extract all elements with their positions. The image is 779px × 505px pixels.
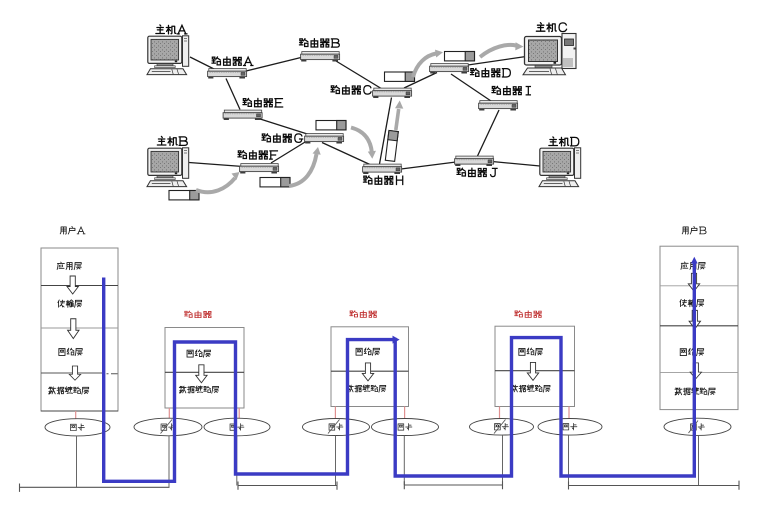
slash e4 xyxy=(328,420,340,434)
label 路由器 red 2 xyxy=(350,311,377,318)
label 应用层 userA xyxy=(57,262,81,270)
packet at host B xyxy=(169,191,199,200)
wire hostA-routerA xyxy=(190,57,216,70)
label 数据链路层 router1 xyxy=(179,386,218,393)
label 传输层 userA xyxy=(58,300,82,308)
drop e5 xyxy=(403,436,405,486)
label 路由器C xyxy=(331,86,371,95)
label 主机D xyxy=(549,137,579,146)
router H xyxy=(363,164,402,174)
drop e4 xyxy=(335,436,337,486)
label 传输层 userB xyxy=(680,299,704,307)
router J xyxy=(455,156,494,166)
label 路由器 red 3 xyxy=(515,311,542,318)
host C computer xyxy=(523,34,576,75)
arrow userB L2-L3 xyxy=(689,310,700,329)
router C xyxy=(373,88,412,98)
LAN bus 1 xyxy=(20,484,170,492)
arrow routerC to packet xyxy=(413,54,436,78)
LAN bus 3 xyxy=(404,481,502,489)
packet above router G xyxy=(316,121,346,130)
wire routerA-routerE xyxy=(226,79,240,110)
router stack 3 box xyxy=(495,326,575,406)
arrow userA L1-L2 xyxy=(67,276,78,294)
arrowhead G xyxy=(313,147,321,155)
label 网卡 e7 xyxy=(563,423,577,430)
NIC ellipse userA xyxy=(45,419,110,436)
label 网络层 router1 xyxy=(187,350,210,357)
arrow userB L1-L2 xyxy=(688,273,699,291)
label 路由器F xyxy=(238,151,278,160)
drop e8 xyxy=(698,435,700,485)
label 路由器B xyxy=(299,39,339,48)
wire routerG-routerH xyxy=(322,143,371,166)
NIC ellipse router3 right xyxy=(538,419,602,436)
blue data path xyxy=(104,262,695,481)
wire routerD-hostC xyxy=(461,57,526,67)
label 网卡 e6 xyxy=(495,423,509,430)
label 路由器G xyxy=(262,134,303,143)
label 应用层 userB xyxy=(681,262,705,270)
label 网络层 router3 xyxy=(519,348,542,355)
label 网卡 e8 xyxy=(691,424,705,431)
slash e6 xyxy=(494,420,506,434)
NIC ellipse userB xyxy=(664,418,731,435)
router I xyxy=(479,101,518,111)
wire routerI-routerJ xyxy=(478,110,500,156)
arrow router3 xyxy=(527,362,538,380)
label 网卡 e1 xyxy=(71,424,85,431)
blue arrow tip userB xyxy=(691,257,698,264)
router B xyxy=(301,52,340,62)
label 网络层 router2 xyxy=(356,348,379,355)
router G xyxy=(305,134,344,144)
LAN bus 2 xyxy=(238,482,337,490)
drop e1 xyxy=(76,436,78,487)
slash e8 xyxy=(689,421,699,434)
drop e2 xyxy=(168,436,170,488)
label 网卡 e5 xyxy=(398,424,412,431)
wire routerH-routerJ xyxy=(401,162,456,169)
red drop router2 left xyxy=(334,407,336,421)
red drop router1 left xyxy=(168,408,170,421)
wire routerE-routerG xyxy=(257,118,312,136)
arrowhead hostC xyxy=(515,42,523,50)
router stack 1 box xyxy=(165,328,244,409)
router E xyxy=(223,110,262,120)
label 路由器I xyxy=(492,86,530,95)
arrow routerG to routerH xyxy=(351,128,372,153)
blue arrow tip router2 xyxy=(393,336,400,344)
slash e2 xyxy=(161,420,173,434)
host A computer xyxy=(147,36,189,75)
wire routerF-routerG xyxy=(271,139,310,163)
arrowhead C xyxy=(395,101,403,109)
wire routerC-routerD xyxy=(404,73,437,89)
arrow routerF to routerG xyxy=(289,154,317,186)
arrowhead F xyxy=(232,172,240,180)
router stack 2 box xyxy=(331,327,409,407)
arrow router1 xyxy=(196,365,207,383)
label 网卡 e2 xyxy=(161,424,175,431)
host B computer xyxy=(147,148,189,187)
label 主机A xyxy=(156,25,187,34)
red drop router2 right xyxy=(404,407,406,421)
wire routerA-routerB xyxy=(244,57,303,72)
wire routerB-routerC xyxy=(336,61,382,89)
LAN bus 4 xyxy=(569,481,740,490)
arrow userA L2-L3 xyxy=(68,319,79,339)
host D computer xyxy=(539,148,581,187)
label 主机C xyxy=(536,23,566,32)
packet above router C xyxy=(385,72,415,81)
label 路由器 red 1 xyxy=(184,311,211,318)
drop e7 xyxy=(568,435,570,485)
arrow userA L3-L4 xyxy=(69,366,80,380)
arrowhead H xyxy=(368,151,376,159)
router D xyxy=(430,64,469,74)
packet tilted near router H xyxy=(385,130,398,161)
arrow routerH to routerC xyxy=(396,109,399,130)
label 数据链路层 router2 xyxy=(346,385,385,392)
red drop userA xyxy=(75,411,77,422)
packet above router D xyxy=(445,52,475,61)
router F xyxy=(240,164,279,174)
label 主机B xyxy=(157,136,187,145)
label 数据链路层 userA xyxy=(49,387,89,394)
arrow userB L3-L4 xyxy=(690,363,701,379)
arrow router2 xyxy=(362,363,373,381)
label 网卡 e3 xyxy=(230,424,244,431)
label 路由器D xyxy=(470,68,510,77)
router A xyxy=(208,69,247,79)
wire routerC-routerH xyxy=(380,98,392,165)
packet at router F xyxy=(260,178,290,187)
NIC ellipse router2 left xyxy=(303,419,370,436)
NIC ellipse router2 right xyxy=(372,419,439,436)
wire routerJ-hostD xyxy=(492,162,540,167)
label 路由器A xyxy=(212,57,253,66)
wire routerD-routerI xyxy=(451,74,491,101)
label 路由器J xyxy=(457,168,497,177)
red drop router3 right xyxy=(568,407,570,421)
NIC ellipse router1 left xyxy=(134,418,202,436)
arrowhead D-pkt xyxy=(435,50,443,58)
red drop router1 right xyxy=(238,408,240,421)
label 网卡 e4 xyxy=(329,424,343,431)
label 路由器H xyxy=(363,176,402,185)
arrow hostB to routerF xyxy=(196,178,235,192)
user A stack box xyxy=(41,248,118,411)
label 路由器E xyxy=(243,98,283,107)
label 用户B xyxy=(682,226,706,234)
wire hostB-routerF xyxy=(189,163,243,167)
NIC ellipse router3 left xyxy=(470,419,534,436)
label 用户A xyxy=(60,226,85,234)
drop e6 xyxy=(502,435,504,485)
label 数据链路层 router3 xyxy=(511,385,550,392)
arrow routerD to hostC xyxy=(480,45,516,57)
red drop router3 left xyxy=(499,407,501,421)
label 网络层 userB xyxy=(680,348,703,355)
NIC ellipse router1 right xyxy=(204,418,270,436)
user B stack box xyxy=(660,246,738,409)
label 数据链路层 userB xyxy=(675,388,715,395)
label 网络层 userA xyxy=(59,348,82,355)
drop e3 xyxy=(236,436,238,486)
red drop userB xyxy=(694,410,696,420)
